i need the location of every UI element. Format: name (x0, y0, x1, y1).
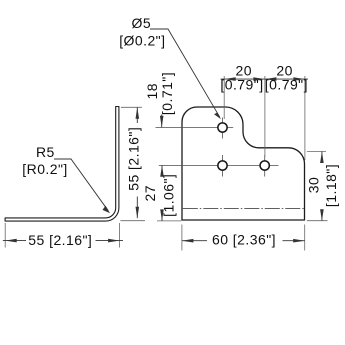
plate outline (182, 107, 305, 220)
svg-text:[0.79"]: [0.79"] (220, 77, 263, 93)
svg-text:[1.06"]: [1.06"] (160, 174, 176, 217)
svg-text:18: 18 (144, 83, 160, 99)
svg-text:[Ø0.2"]: [Ø0.2"] (119, 32, 165, 48)
bracket profile (sheet cross-section) (5, 107, 119, 222)
top 20/20 dims (223, 76, 225, 119)
18 dim (161, 115, 163, 128)
svg-text:[R0.2"]: [R0.2"] (22, 161, 67, 177)
27 dim (157, 220, 182, 222)
svg-text:60 [2.36"]: 60 [2.36"] (212, 232, 276, 248)
R5 leader (54, 159, 108, 211)
svg-text:R5: R5 (36, 144, 55, 160)
bend line (dash-dot) (183, 208, 304, 210)
vertical 55 dim (left view) (121, 106, 142, 108)
crosshair verticals (222, 118, 224, 139)
svg-text:27: 27 (142, 185, 158, 201)
hole top (218, 123, 227, 132)
diameter leader (150, 29, 220, 117)
svg-text:[0.71"]: [0.71"] (159, 72, 175, 115)
hole lower-left (218, 161, 227, 170)
hole lower-right (260, 161, 269, 170)
svg-text:30: 30 (306, 177, 322, 193)
svg-text:55 [2.16"]: 55 [2.16"] (126, 127, 142, 191)
hole centerline top (156, 127, 234, 129)
bottom 60 dim (181, 225, 183, 251)
svg-text:Ø5: Ø5 (132, 15, 152, 31)
horizontal 55 dim (left view) (4, 223, 6, 248)
svg-text:55 [2.16"]: 55 [2.16"] (28, 232, 92, 248)
svg-text:[0.79"]: [0.79"] (265, 77, 308, 93)
hole centerline lower row (159, 165, 279, 167)
30 dim (307, 151, 326, 153)
svg-text:[1.18"]: [1.18"] (323, 164, 339, 207)
